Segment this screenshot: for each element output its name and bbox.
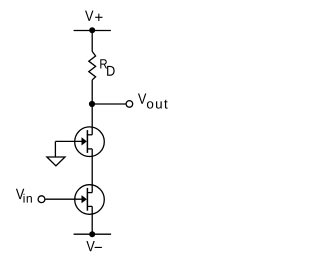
wire V+ to resistor (91, 31, 93, 52)
V- rail (74, 233, 112, 235)
Q1 gate arrow (82, 137, 87, 145)
Q2 channel bar (86, 188, 88, 211)
Q1 drain jog (87, 134, 92, 136)
Q2 gate wire (46, 198, 83, 200)
label V+ (85, 11, 102, 21)
label RD (100, 59, 114, 75)
label Vminus (86, 241, 102, 251)
node dot V- (89, 231, 95, 237)
Q1 gate wire (55, 140, 82, 142)
node dot Vout (89, 101, 95, 107)
label Vout (138, 93, 168, 108)
transistor Q1 (75, 127, 105, 157)
transistor Q2 (75, 185, 105, 215)
Q2 gate arrow (82, 195, 87, 203)
ground wire (54, 141, 56, 157)
wire Q1 source to Q2 drain (91, 149, 93, 193)
Vin terminal (38, 196, 45, 203)
Q1 source jog (87, 148, 92, 150)
wire Q2 source to V- rail (91, 206, 93, 234)
Vout terminal (126, 101, 133, 108)
node dot V+ (89, 27, 95, 33)
V+ rail (74, 30, 111, 32)
ground (47, 157, 65, 166)
Q2 source jog (87, 205, 92, 207)
resistor RD (89, 51, 96, 80)
Q1 channel bar (86, 130, 88, 153)
label Vin (16, 189, 32, 203)
wire node to Vout terminal (92, 103, 125, 105)
wire resistor to Vout node (91, 80, 93, 104)
Q2 drain jog (87, 192, 92, 194)
wire node to Q1 drain (91, 104, 93, 135)
